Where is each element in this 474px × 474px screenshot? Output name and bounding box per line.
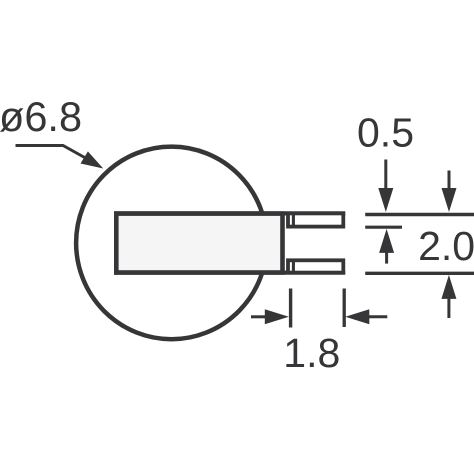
svg-text:2.0: 2.0 (418, 223, 474, 269)
extension line B (365, 226, 402, 229)
dim 2.0 down arrow (442, 171, 457, 213)
leader arrowhead (81, 151, 104, 168)
bottom edge line (114, 271, 345, 275)
top lead inner tick (292, 212, 295, 228)
extension line A (365, 213, 474, 216)
dim 1.8 left arrow (251, 309, 289, 324)
top edge line (114, 211, 345, 215)
bottom lead inner tick (292, 259, 295, 275)
dim 1.8 left extension line (289, 289, 292, 328)
dim 0.5 up arrow (379, 229, 394, 264)
svg-text:ø6.8: ø6.8 (0, 93, 82, 140)
body rectangle (116, 214, 282, 273)
top lead (288, 213, 343, 226)
extension line C (365, 272, 474, 275)
leader line for 6.8 (16, 146, 91, 161)
dim 2.0 up arrow (441, 275, 456, 318)
svg-text:1.8: 1.8 (283, 330, 340, 376)
dim 1.8 right arrow (345, 309, 387, 324)
dim 0.5 down arrow (378, 160, 393, 213)
bottom lead (288, 260, 343, 272)
thermistor body circle (76, 147, 267, 340)
dim 1.8 right extension line (343, 289, 346, 328)
svg-text:0.5: 0.5 (357, 109, 414, 155)
